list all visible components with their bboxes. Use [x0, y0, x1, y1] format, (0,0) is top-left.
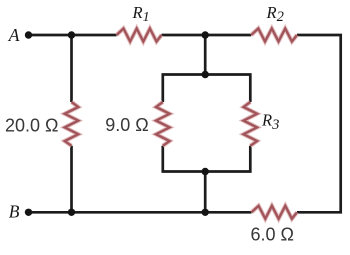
resistor R3	[244, 102, 258, 146]
svg-text:20.0 Ω: 20.0 Ω	[5, 116, 59, 136]
terminal A dot	[25, 31, 32, 38]
wire inner box top	[163, 75, 251, 103]
svg-text:A: A	[8, 25, 20, 45]
terminal B dot	[25, 209, 32, 216]
resistor 6.0 ohm	[252, 206, 298, 219]
wire top right + right edge + bottom right corner	[297, 35, 341, 212]
resistor 9.0 ohm	[156, 102, 170, 146]
junction top-left	[68, 31, 75, 38]
junction box top	[202, 71, 209, 78]
svg-text:B: B	[9, 202, 20, 222]
junction bottom-middle	[202, 209, 209, 216]
wire left branch upper lead	[70, 35, 73, 102]
wire inner box bottom	[163, 146, 251, 172]
wire middle connector bottom	[204, 172, 207, 213]
resistor R1	[117, 29, 162, 42]
resistor R2	[251, 29, 297, 42]
wire bottom: B to 6 ohm	[29, 211, 252, 214]
wire top: A to R1	[29, 34, 117, 37]
wire left branch lower lead	[70, 146, 73, 213]
junction bottom-left	[68, 209, 75, 216]
wire middle connector top	[204, 35, 207, 75]
junction top-middle	[202, 31, 209, 38]
svg-text:6.0 Ω: 6.0 Ω	[251, 225, 294, 245]
wire top: R1 to R2	[162, 34, 252, 37]
resistor 20.0 ohm	[65, 102, 79, 146]
svg-text:9.0 Ω: 9.0 Ω	[105, 115, 148, 135]
junction box bottom	[202, 168, 209, 175]
